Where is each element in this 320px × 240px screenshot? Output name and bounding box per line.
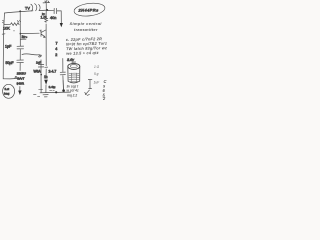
transistor Q1 (41, 30, 46, 38)
node dot emitter (40, 74, 42, 76)
svg-text:we 13.5 + c4 qtz: we 13.5 + c4 qtz (66, 50, 99, 56)
wire base stub (20, 38, 26, 40)
svg-text:W6A: W6A (34, 70, 42, 74)
svg-text:GArT: GArT (17, 77, 25, 81)
text annotation block right (66, 21, 108, 101)
svg-text:2: 2 (55, 53, 57, 57)
inductor L1 (31, 4, 40, 11)
node junction dot antenna (46, 9, 48, 11)
svg-text:1n: 1n (44, 75, 48, 79)
ground marks (43, 95, 48, 97)
node dot battery lead (62, 89, 65, 92)
svg-text:3.4tμ: 3.4tμ (49, 85, 56, 89)
wire from capacitor with bend (57, 11, 61, 23)
capacitor C5 symbol (85, 79, 93, 95)
ground dashes (34, 94, 40, 96)
wire to capacitor (48, 10, 54, 12)
capacitor C2 plates (54, 8, 57, 13)
note vertical column (102, 79, 107, 101)
wire emitter vertical (40, 60, 42, 93)
node junction dot left (19, 10, 21, 12)
svg-text:1.5t: 1.5t (41, 16, 47, 20)
svg-text:7: 7 (56, 42, 58, 46)
svg-text:5 g: 5 g (94, 72, 99, 76)
svg-text:50µF: 50µF (6, 61, 14, 65)
capacitor C3 plates (17, 60, 24, 63)
svg-text:10K: 10K (3, 27, 10, 31)
op ellipse label 2N4401 (73, 2, 105, 18)
arrowhead down (60, 23, 63, 27)
svg-text:mq 2.2: mq 2.2 (67, 94, 77, 98)
svg-text:1 G: 1 G (94, 65, 100, 69)
svg-text:3.6v: 3.6v (67, 58, 75, 62)
arrowhead annotation bottom (44, 80, 48, 85)
wire left rail (3, 13, 19, 79)
battery label shading (69, 73, 79, 82)
svg-text:k=: k= (42, 12, 45, 16)
note circle bottom left (3, 84, 15, 98)
svg-text:TV: TV (25, 7, 30, 11)
capacitor C6 plates (60, 72, 65, 75)
node junction right branch (45, 66, 48, 68)
battery cell cylinder (68, 63, 80, 69)
svg-text:1uF: 1uF (36, 61, 41, 65)
svg-text:4: 4 (55, 47, 57, 51)
capacitor C4 plates (38, 64, 44, 67)
svg-text:w scl 4z: w scl 4z (67, 89, 79, 93)
svg-text:Simple central: Simple central (70, 21, 103, 26)
svg-text:$49R: $49R (17, 82, 25, 86)
svg-text:40n: 40n (50, 16, 56, 20)
svg-text:1uF: 1uF (94, 81, 101, 85)
wire mid-right vertical (62, 59, 65, 90)
svg-text:250R?: 250R? (17, 72, 26, 76)
wire right branch vertical (45, 11, 47, 93)
node tick left rail (2, 33, 5, 35)
resistor R2 zigzag (45, 18, 48, 22)
wire middle vertical (19, 11, 22, 91)
capacitor C1 plates (17, 46, 24, 49)
wire wavy annotation (22, 54, 42, 57)
wire base horizontal (20, 32, 39, 34)
node dot small (13, 30, 14, 31)
arrowhead bottom of middle vertical (18, 90, 21, 95)
svg-text:long: long (4, 91, 10, 95)
node dot bottom rail (55, 91, 57, 93)
wire top rail (5, 10, 48, 13)
wire battery lead (62, 81, 64, 91)
arrowhead annotation pointer (40, 30, 41, 31)
tick marks near rail (39, 89, 55, 91)
wire bottom rail (40, 91, 71, 94)
svg-text:1µF: 1µF (5, 45, 12, 49)
svg-text:transmitter: transmitter (74, 27, 98, 32)
resistor R1 zigzag (2, 20, 20, 25)
svg-text:2n∿: 2n∿ (22, 35, 29, 39)
svg-text:2N44PRs: 2N44PRs (78, 7, 99, 12)
antenna (43, 0, 50, 9)
svg-text:2-4.7: 2-4.7 (49, 70, 57, 74)
node dot base junction (20, 33, 22, 35)
